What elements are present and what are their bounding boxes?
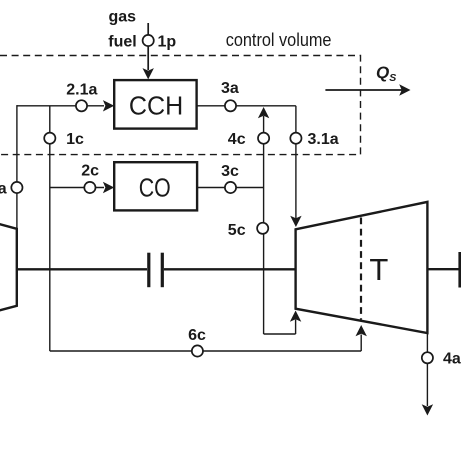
svg-text:T: T: [369, 252, 388, 287]
svg-text:3a: 3a: [221, 80, 239, 97]
svg-text:a: a: [0, 180, 7, 197]
svg-text:CO: CO: [139, 172, 171, 202]
svg-text:4c: 4c: [228, 131, 246, 148]
svg-text:control volume: control volume: [226, 30, 332, 50]
svg-text:fuel: fuel: [108, 33, 136, 50]
svg-text:6c: 6c: [188, 327, 206, 344]
svg-text:CCH: CCH: [129, 90, 183, 120]
svg-text:1p: 1p: [158, 33, 177, 50]
svg-text:gas: gas: [109, 9, 137, 26]
svg-text:2.1a: 2.1a: [66, 81, 97, 98]
svg-text:1c: 1c: [66, 131, 84, 148]
svg-text:5c: 5c: [228, 222, 246, 239]
svg-text:4a: 4a: [443, 350, 461, 367]
svg-text:2c: 2c: [81, 163, 99, 180]
svg-text:3c: 3c: [221, 163, 239, 180]
svg-text:3.1a: 3.1a: [308, 131, 339, 148]
